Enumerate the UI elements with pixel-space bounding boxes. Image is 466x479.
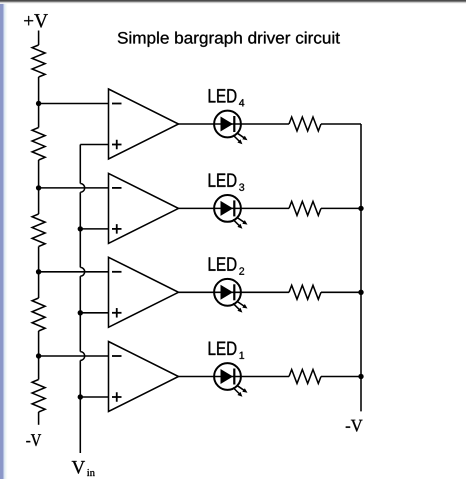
resistor R5 <box>32 380 45 413</box>
LED2 light arrow upper <box>237 302 247 309</box>
wire resistor R7 to right bus <box>321 207 361 209</box>
op-amp U3 plus sign <box>112 224 122 234</box>
resistor R4 <box>32 298 45 331</box>
LED3 cathode bar <box>233 200 235 216</box>
right -V bus wire <box>360 124 362 411</box>
wire node C to op-amp U2 inverting input <box>39 271 109 273</box>
LED1 anode triangle <box>221 369 234 384</box>
resistor R2 <box>32 128 45 161</box>
LED2 circle <box>214 279 241 306</box>
wire R1 to node A <box>38 77 40 128</box>
LED1 cathode bar <box>233 369 235 385</box>
resistor R8 (LED2 series) <box>289 285 321 299</box>
Vin bus wire segment 3 <box>79 276 81 351</box>
LED4 cathode bar <box>233 116 235 132</box>
LED4 light arrow lower <box>233 135 242 144</box>
Vin bus hop over node D wire <box>80 352 84 361</box>
wire Vin bus to op-amp U3 non-inverting input <box>80 228 108 230</box>
wire op-amp U3 output through LED3 to resistor <box>179 207 290 209</box>
wire R2 to node B <box>38 160 40 214</box>
LED1 light arrow lower <box>233 388 242 397</box>
left page border <box>0 0 8 479</box>
top page border <box>0 0 466 4</box>
Vin bus wire segment 1 <box>79 145 81 184</box>
LED1 label <box>209 342 244 359</box>
LED1 light arrow upper <box>237 386 247 393</box>
wire op-amp U4 output through LED4 to resistor <box>179 123 290 125</box>
LED3 light arrow lower <box>233 219 242 228</box>
wire Vin bus to op-amp U2 non-inverting input <box>80 312 108 314</box>
wire op-amp U1 output through LED1 to resistor <box>179 376 290 378</box>
Vin input label <box>72 461 95 476</box>
-V supply label left <box>26 434 41 446</box>
LED3 anode triangle <box>221 201 234 216</box>
wire op-amp U2 output through LED2 to resistor <box>179 291 290 293</box>
resistor R9 (LED1 series) <box>289 370 321 384</box>
resistor R3 <box>32 214 45 247</box>
right bus junction dot row 1 <box>358 374 363 379</box>
LED2 cathode bar <box>233 284 235 300</box>
title <box>118 32 340 47</box>
right bus junction dot row 3 <box>358 206 363 211</box>
node B junction dot <box>36 185 41 190</box>
resistor R6 (LED4 series) <box>289 117 321 131</box>
LED3 light arrow upper <box>237 218 247 225</box>
Vin bus hop over node C wire <box>80 267 84 276</box>
wire R5 to -V <box>38 412 40 425</box>
Vin bus hop over node B wire <box>80 184 84 193</box>
Vin bus wire segment 2 <box>79 192 81 267</box>
Vin bus junction dot row 1 <box>78 394 83 399</box>
LED2 label <box>209 257 244 274</box>
op-amp U2 plus sign <box>112 308 122 318</box>
right bus junction dot row 2 <box>358 290 363 295</box>
LED4 light arrow upper <box>237 133 247 140</box>
op-amp U3 <box>109 173 179 243</box>
resistor R1 <box>32 45 45 77</box>
wire R4 to node D <box>38 331 40 380</box>
wire node D to op-amp U1 inverting input <box>39 355 109 357</box>
op-amp U2 minus sign <box>112 271 122 273</box>
wire R3 to node C <box>38 247 40 299</box>
node C junction dot <box>36 269 41 274</box>
LED1 circle <box>214 363 241 390</box>
wire Vin bus to op-amp U1 non-inverting input <box>80 396 108 398</box>
Vin bus junction dot row 2 <box>78 310 83 315</box>
LED2 anode triangle <box>221 285 234 300</box>
Vin bus wire segment 4 <box>79 360 81 453</box>
wire node B to op-amp U3 inverting input <box>39 187 109 189</box>
LED4 anode triangle <box>221 117 234 132</box>
wire resistor R6 to right bus <box>321 123 361 125</box>
op-amp U4 <box>109 89 179 159</box>
LED4 label <box>209 89 245 106</box>
wire Vin bus to op-amp U4 non-inverting input <box>80 144 108 146</box>
resistor R7 (LED3 series) <box>289 201 321 215</box>
op-amp U1 plus sign <box>112 392 122 402</box>
LED2 light arrow lower <box>233 303 242 312</box>
node A junction dot <box>36 101 41 106</box>
op-amp U2 <box>109 257 179 327</box>
op-amp U3 minus sign <box>112 187 122 189</box>
node D junction dot <box>36 353 41 358</box>
LED3 circle <box>214 195 241 222</box>
wire node A to op-amp U4 inverting input <box>39 103 109 105</box>
wire +V to R1 <box>38 31 40 46</box>
-V supply label right <box>346 420 363 432</box>
+V supply label <box>24 14 48 27</box>
op-amp U1 minus sign <box>112 355 122 357</box>
op-amp U4 minus sign <box>112 103 122 105</box>
Vin bus junction dot row 3 <box>78 226 83 231</box>
LED3 label <box>209 174 245 191</box>
wire resistor R9 to right bus <box>321 376 361 378</box>
op-amp U1 <box>109 342 179 412</box>
wire resistor R8 to right bus <box>321 291 361 293</box>
op-amp U4 plus sign <box>112 140 122 150</box>
LED4 circle <box>214 111 241 138</box>
